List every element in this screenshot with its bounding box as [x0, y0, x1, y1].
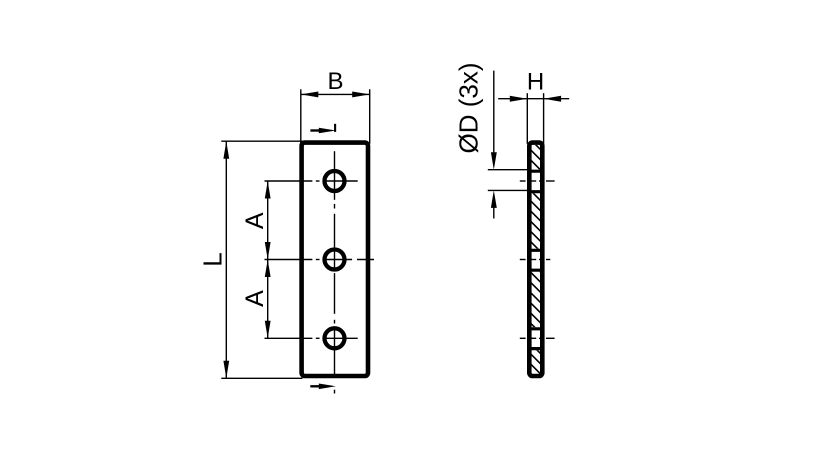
svg-text:B: B	[327, 68, 343, 95]
svg-text:ØD (3x): ØD (3x)	[454, 63, 484, 154]
svg-text:H: H	[527, 69, 544, 96]
svg-text:A: A	[241, 212, 269, 229]
svg-text:A: A	[241, 290, 269, 307]
svg-text:L: L	[198, 252, 228, 266]
